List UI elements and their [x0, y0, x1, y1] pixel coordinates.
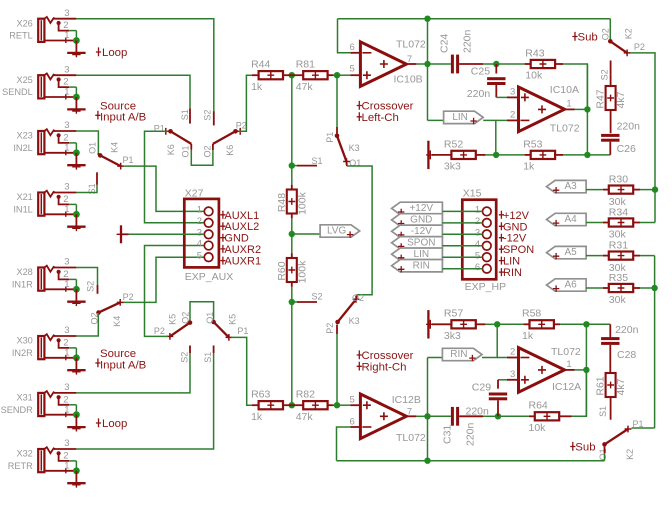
svg-text:2: 2: [510, 110, 515, 121]
svg-text:1k: 1k: [251, 411, 263, 423]
wire IC10B output: [406, 63, 416, 65]
wire X26.pin3 to K6.S2: [76, 19, 213, 111]
svg-text:X15: X15: [463, 187, 482, 199]
junction R81/IC10B pin5/K3.P1: [334, 72, 340, 78]
svg-text:3: 3: [64, 8, 69, 19]
svg-text:Loop: Loop: [102, 418, 127, 430]
svg-text:K2: K2: [624, 28, 634, 39]
svg-text:3: 3: [64, 64, 69, 75]
svg-text:K6: K6: [166, 144, 176, 155]
wire IC12A output: [565, 369, 575, 371]
svg-text:K3: K3: [349, 143, 360, 153]
ground X21: [75, 214, 77, 226]
wire K5 O1-O2 bridge: [190, 302, 214, 321]
svg-text:IC10B: IC10B: [394, 74, 423, 86]
wire IC12B output: [406, 415, 416, 417]
wire IC10A pin2: [496, 119, 507, 121]
svg-text:1: 1: [64, 87, 69, 98]
wire K2a.P2 to right column: [631, 53, 655, 223]
svg-text:R57: R57: [444, 308, 463, 320]
connector X27 pin 1 AUXL1: [204, 207, 213, 216]
capacitor C25 220n: [495, 64, 497, 74]
ground X30: [75, 358, 77, 370]
junction C31/R64/C29: [495, 413, 501, 419]
flag SPON at X15: [392, 237, 443, 249]
svg-text:4k7: 4k7: [615, 91, 627, 108]
svg-text:5: 5: [197, 250, 202, 261]
junction IC10A output: [584, 106, 590, 112]
svg-text:K3: K3: [349, 316, 360, 326]
svg-text:220n: 220n: [466, 406, 490, 418]
svg-text:4: 4: [197, 239, 202, 250]
svg-text:RETL: RETL: [9, 31, 33, 41]
resistor R30 30k: [609, 186, 633, 194]
svg-text:3: 3: [64, 120, 69, 131]
svg-text:C25: C25: [471, 66, 490, 78]
wire to C26: [587, 154, 610, 156]
junction bottom feedback: [424, 458, 430, 464]
svg-text:1k: 1k: [523, 161, 535, 173]
svg-text:220n: 220n: [617, 120, 641, 132]
flag RIN at X15: [392, 260, 443, 272]
svg-text:R53: R53: [523, 138, 542, 150]
svg-text:+12V: +12V: [409, 203, 433, 214]
wire A6 to R35: [586, 287, 603, 289]
connector X27 pin 3 GND: [204, 230, 213, 239]
junction top wire/output: [424, 16, 430, 22]
svg-text:3k3: 3k3: [444, 330, 461, 342]
svg-text:K4: K4: [112, 316, 122, 327]
svg-text:GND: GND: [503, 221, 528, 233]
svg-text:1: 1: [566, 99, 571, 110]
wire X15 pin 1: [442, 210, 482, 212]
svg-text:6: 6: [350, 416, 355, 427]
wire IC12A pin2: [497, 357, 507, 359]
svg-text:GND: GND: [224, 233, 249, 245]
text Loop (top): [96, 47, 101, 56]
junction IC12B output: [424, 413, 430, 419]
junction C24/R43/C25: [493, 61, 499, 67]
connector X27 pin 2 AUXL2: [204, 219, 213, 228]
wire IC10A pin3: [507, 96, 519, 98]
resistor R57 3k3: [451, 320, 475, 328]
svg-text:SENDR: SENDR: [1, 405, 34, 415]
svg-text:1: 1: [64, 143, 69, 154]
svg-text:47k: 47k: [296, 81, 314, 93]
capacitor C24 220n: [428, 63, 451, 65]
svg-text:S2: S2: [203, 110, 213, 121]
svg-text:100k: 100k: [296, 260, 308, 284]
resistor R43 10k: [531, 60, 555, 68]
svg-text:1: 1: [64, 461, 69, 472]
svg-text:3: 3: [475, 228, 480, 239]
svg-text:6: 6: [475, 262, 480, 273]
flag LVG: [292, 233, 320, 235]
wire IC10B pin6 feedback to top: [350, 52, 360, 54]
connector X30 IN2R jack: [38, 336, 44, 359]
svg-text:3: 3: [64, 257, 69, 268]
resistor R48 100k: [287, 190, 297, 214]
resistor R35 30k: [609, 284, 633, 292]
wire X21.pin3 to K4.S1: [76, 185, 97, 193]
svg-text:3: 3: [64, 438, 69, 449]
relay K3 pole 2: [355, 295, 357, 300]
wire K4.P2 to X27 pin5: [124, 257, 205, 302]
resistor R60 100k: [287, 258, 297, 282]
svg-text:1: 1: [566, 359, 571, 370]
text Loop (bottom): [96, 418, 101, 427]
junction K3.S1 node: [289, 162, 295, 168]
svg-text:RIN: RIN: [450, 349, 467, 360]
svg-text:R63: R63: [251, 389, 270, 401]
svg-text:S2: S2: [86, 281, 96, 292]
wire mid vertical (R44/R81 node down to R63/R82 node): [291, 75, 293, 185]
svg-text:R52: R52: [444, 138, 463, 150]
resistor R53 1k: [531, 151, 555, 159]
junction R30 node: [652, 186, 658, 192]
svg-text:RETR: RETR: [8, 461, 33, 471]
svg-text:X32: X32: [16, 449, 32, 459]
flag +12V at X15: [392, 202, 443, 214]
flag -12V at X15: [392, 225, 443, 237]
svg-text:IC12A: IC12A: [552, 381, 581, 393]
wire X27.pin4 to K5.P2: [145, 246, 205, 337]
junction X23 pin1/gnd: [73, 149, 80, 156]
svg-text:K4: K4: [110, 142, 120, 153]
junction X31 pin1/gnd: [73, 411, 80, 418]
svg-text:TL072: TL072: [396, 432, 426, 444]
junction R35 node: [651, 285, 657, 291]
svg-text:30k: 30k: [609, 294, 627, 306]
svg-text:220n: 220n: [615, 324, 639, 336]
svg-text:TL072: TL072: [551, 346, 581, 358]
svg-text:P2: P2: [154, 326, 165, 336]
text Crossover Left-Ch: [357, 101, 362, 110]
svg-text:O2: O2: [203, 145, 213, 157]
wire A3 to R30: [586, 189, 603, 191]
svg-text:AUXL2: AUXL2: [224, 221, 259, 233]
svg-text:X30: X30: [16, 336, 32, 346]
svg-text:2: 2: [475, 216, 480, 227]
svg-text:1: 1: [64, 348, 69, 359]
svg-text:TL072: TL072: [396, 39, 426, 51]
svg-text:P1: P1: [325, 132, 335, 143]
svg-text:220n: 220n: [462, 29, 474, 53]
junction R52/R53/pin2: [493, 152, 499, 158]
svg-text:10k: 10k: [529, 422, 547, 434]
svg-text:Source: Source: [100, 348, 136, 360]
svg-text:A5: A5: [564, 247, 577, 258]
wire K3.P1 vertical: [336, 75, 338, 127]
svg-text:P1: P1: [237, 326, 248, 336]
ground X23: [75, 153, 77, 165]
svg-text:C26: C26: [617, 143, 636, 155]
resistor R64 10k: [535, 412, 559, 420]
junction X25 pin1/gnd: [73, 94, 80, 101]
wire top net to K2.O2: [338, 18, 611, 20]
junction R44/R81: [289, 72, 295, 78]
svg-text:3: 3: [64, 382, 69, 393]
resistor R61 leads: [609, 345, 611, 373]
wire A4 to R34: [586, 222, 603, 224]
svg-text:3: 3: [510, 369, 515, 380]
connector X21 IN1L jack: [38, 193, 44, 216]
svg-text:IC12B: IC12B: [392, 394, 421, 406]
svg-text:EXP_HP: EXP_HP: [465, 281, 506, 293]
op-amp IC12B TL072: [360, 394, 406, 439]
relay K5 pole 2 (O1): [211, 320, 216, 325]
text Crossover Right-Ch: [357, 350, 362, 359]
svg-text:RIN: RIN: [503, 267, 522, 279]
relay K5 contact S2: [189, 346, 191, 354]
junction X21 pin1/gnd: [73, 211, 80, 218]
svg-text:SENDL: SENDL: [2, 87, 33, 97]
junction X26 pin1/gnd: [73, 37, 80, 44]
wire X15 pin 3: [442, 233, 482, 235]
svg-text:P2: P2: [236, 121, 247, 131]
connector X28 IN1R jack: [38, 268, 44, 291]
relay K4 contact S1: [96, 172, 98, 185]
svg-text:IN2L: IN2L: [13, 143, 32, 153]
svg-text:1: 1: [64, 204, 69, 215]
svg-text:R60: R60: [276, 261, 288, 280]
wire X30.pin3 to K4.O2: [76, 313, 98, 336]
svg-text:Sub: Sub: [578, 32, 598, 44]
wire X23.pin3 to K4.O1: [76, 131, 98, 153]
wire bottom feedback net: [337, 460, 605, 462]
resistor R31 30k: [609, 252, 633, 260]
svg-text:+12V: +12V: [503, 210, 530, 222]
svg-text:6: 6: [350, 42, 355, 53]
wire IC12B pin6 feedback: [350, 426, 360, 428]
wire X15 pin 4: [442, 245, 482, 247]
wire X31.pin3 to K5.S2: [76, 353, 190, 393]
svg-text:A3: A3: [564, 181, 577, 192]
connector X15 pin 2 GND: [483, 219, 492, 228]
capacitor C29 220n: [498, 379, 507, 381]
svg-text:1: 1: [475, 205, 480, 216]
svg-text:5: 5: [475, 250, 480, 261]
svg-text:LIN: LIN: [414, 249, 430, 260]
relay K6 contact S1: [189, 108, 191, 123]
svg-text:O1: O1: [598, 448, 608, 460]
svg-text:R82: R82: [296, 389, 315, 401]
svg-text:Loop: Loop: [102, 47, 127, 59]
svg-text:X21: X21: [16, 192, 32, 202]
resistor R52 3k3: [451, 151, 475, 159]
svg-text:AUXR1: AUXR1: [224, 256, 261, 268]
flag LIN: [428, 119, 444, 121]
svg-text:A4: A4: [564, 214, 577, 225]
relay K6 pole P2: [233, 129, 238, 134]
wire feedback vertical R43-R53: [586, 64, 588, 155]
wire R43 to output node: [563, 64, 587, 109]
svg-text:O2: O2: [601, 28, 611, 40]
svg-text:C29: C29: [472, 382, 491, 394]
junction R53/C26: [584, 152, 590, 158]
text Source Input A/B (bottom): [95, 358, 100, 367]
text Source Input A/B (top): [95, 111, 100, 120]
svg-text:5: 5: [350, 394, 355, 405]
connector X23 IN2L jack: [38, 131, 44, 154]
svg-text:Right-Ch: Right-Ch: [362, 361, 407, 373]
svg-text:1k: 1k: [251, 81, 263, 93]
text Sub (bottom): [570, 442, 575, 451]
wire to C28: [586, 323, 610, 325]
junction R58/C28: [583, 321, 589, 327]
svg-text:SPON: SPON: [503, 244, 534, 256]
relay K4 pole 2: [97, 311, 99, 314]
connector X27 EXP_AUX: [184, 199, 219, 268]
svg-text:-12V: -12V: [411, 226, 432, 237]
svg-text:LIN: LIN: [503, 256, 520, 268]
relay K2 pole O1 (bottom): [602, 442, 607, 447]
relay K2 contact S2 (top): [610, 61, 612, 75]
junction K3.S2 node: [289, 299, 295, 305]
wire K2b.P1 to right column: [632, 427, 655, 429]
wire X27 pin3 to GND: [129, 233, 205, 235]
wire K6.P1 to X27 pin2: [145, 131, 205, 223]
wire K6.P2 to R44: [239, 75, 253, 131]
connector X27 pin 4 AUXR2: [204, 241, 213, 250]
connector X15 pin 4 SPON: [483, 242, 492, 251]
relay K5 contact S1: [213, 346, 215, 354]
junction IC12A output: [583, 367, 589, 373]
wire LIN to pin2 node: [483, 120, 496, 154]
wire X28.pin3 to K4.S2: [76, 268, 97, 286]
connector X15 pin 3 -12V: [483, 230, 492, 239]
wire IC12A pin3: [507, 379, 519, 381]
flag LIN at X15: [392, 248, 443, 260]
svg-text:10k: 10k: [525, 70, 543, 82]
relay K4 pole 1: [97, 153, 99, 155]
svg-text:LIN: LIN: [452, 112, 468, 123]
wire X15 pin 5: [442, 256, 482, 258]
svg-text:3: 3: [197, 228, 202, 239]
svg-text:P2: P2: [123, 292, 134, 302]
flag A4: [547, 213, 587, 225]
svg-text:220n: 220n: [465, 422, 477, 446]
svg-text:3: 3: [64, 182, 69, 193]
svg-text:R34: R34: [609, 206, 628, 218]
junction R63/R82: [289, 402, 295, 408]
ground X25: [75, 97, 77, 109]
svg-text:S1: S1: [203, 352, 213, 363]
svg-text:S1: S1: [180, 109, 190, 120]
svg-text:1: 1: [64, 30, 69, 41]
svg-text:5: 5: [350, 63, 355, 74]
wire K6 O1-O2 bridge: [191, 150, 213, 166]
svg-text:GND: GND: [410, 215, 432, 226]
svg-text:K5: K5: [227, 314, 237, 325]
svg-text:Sub: Sub: [575, 442, 595, 454]
svg-text:EXP_AUX: EXP_AUX: [185, 271, 233, 283]
relay K6 pole P1: [168, 129, 173, 134]
svg-text:R61: R61: [595, 376, 607, 395]
junction R82/IC12B pin5/K3.P2: [334, 402, 340, 408]
svg-text:1: 1: [197, 205, 202, 216]
svg-text:S2: S2: [312, 292, 323, 302]
wire output vertical (top wire to LIN row): [427, 19, 429, 121]
junction X30 pin1/gnd: [73, 354, 80, 361]
wire K5.P1 to R63: [231, 337, 252, 405]
ground X31: [75, 415, 77, 427]
svg-text:R81: R81: [296, 59, 315, 71]
ground at R57: [427, 310, 429, 338]
svg-text:Input A/B: Input A/B: [100, 359, 146, 371]
wire A5 to R31: [586, 255, 603, 257]
connector X25 SENDL jack: [38, 75, 44, 98]
svg-text:O2: O2: [352, 293, 364, 303]
svg-text:4: 4: [475, 239, 480, 250]
svg-text:3k3: 3k3: [444, 161, 461, 173]
svg-text:O1: O1: [181, 145, 191, 157]
svg-text:R58: R58: [522, 308, 541, 320]
op-amp IC10A TL072: [519, 87, 565, 132]
svg-text:X26: X26: [16, 18, 32, 28]
svg-text:S2: S2: [180, 352, 190, 363]
svg-text:AUXL1: AUXL1: [224, 210, 259, 222]
resistor R63 1k: [259, 401, 283, 409]
svg-text:X27: X27: [185, 188, 204, 200]
resistor R47 4k7: [606, 86, 616, 110]
ground X32: [75, 471, 77, 483]
flag RIN: [428, 357, 443, 359]
svg-text:AUXR2: AUXR2: [224, 244, 261, 256]
svg-text:R35: R35: [609, 272, 628, 284]
connector X32 RETR jack: [38, 449, 44, 472]
svg-text:R43: R43: [525, 47, 544, 59]
wire K3.P2 to IC12B pin5 node: [336, 334, 338, 405]
connector X15 EXP_HP: [462, 200, 496, 280]
relay K5 pole 1 (O2): [188, 320, 193, 325]
wire IC12B pin5: [337, 404, 350, 406]
relay K3 pole 1: [336, 127, 338, 134]
wire IC10B pin5: [337, 74, 350, 76]
svg-text:R48: R48: [276, 193, 288, 212]
flag A3: [547, 180, 587, 192]
svg-text:3: 3: [510, 87, 515, 98]
capacitor C26 220n: [610, 110, 612, 133]
connector X15 pin 1 +12V: [483, 207, 492, 216]
ground at R52: [427, 141, 429, 169]
wire X15 pin 6: [442, 268, 482, 270]
svg-text:-12V: -12V: [503, 233, 527, 245]
svg-text:4k7: 4k7: [615, 378, 627, 395]
svg-text:2: 2: [510, 347, 515, 358]
wire output vertical (RIN row to feedback row): [427, 358, 429, 461]
svg-text:P2: P2: [634, 42, 645, 52]
flag GND at X15: [392, 214, 443, 226]
svg-text:R64: R64: [529, 400, 548, 412]
svg-text:X28: X28: [16, 267, 32, 277]
text Sub (top): [572, 32, 577, 41]
resistor R47 leads: [610, 74, 612, 86]
capacitor C31 220n: [428, 415, 451, 417]
svg-text:1k: 1k: [522, 330, 534, 342]
svg-text:1: 1: [64, 279, 69, 290]
op-amp IC12A TL072: [519, 348, 565, 393]
svg-text:Crossover: Crossover: [362, 350, 414, 362]
connector X15 pin 5 LIN: [483, 253, 492, 262]
svg-text:C28: C28: [617, 349, 636, 361]
resistor R61 4k7: [606, 373, 616, 397]
flag A6: [547, 279, 587, 291]
wire X15 pin 2: [442, 222, 482, 224]
junction X28 pin1/gnd: [73, 286, 80, 293]
wire IC10A output: [565, 108, 575, 110]
resistor R81 47k: [303, 71, 327, 79]
